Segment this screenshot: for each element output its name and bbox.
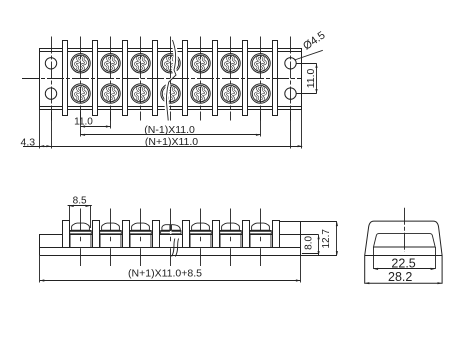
screw S3 head (front view) (130, 223, 152, 247)
break line (top view) (167, 40, 176, 121)
mounting hole (top view) (285, 88, 296, 99)
screw S3 top-row (top view) (131, 54, 150, 73)
vertical centerline col x=260.5 (top view) (260, 37, 262, 121)
svg-text:22.5: 22.5 (391, 256, 415, 270)
svg-text:11.0: 11.0 (305, 68, 317, 88)
centerline screw S1 (front view) (80, 209, 82, 267)
barrier B1 (front view) (63, 221, 70, 248)
screw S2 bottom-row (top view) (101, 84, 120, 103)
vertical centerline col x=140.5 (top view) (140, 37, 142, 121)
screw S1 top-row (top view) (71, 54, 90, 73)
vertical centerline col x=170.5 (top view) (170, 37, 172, 121)
extension line below col x=110.5 (110, 109, 112, 128)
screw S7 top-row (top view) (251, 54, 270, 73)
barrier B2 (front view) (93, 221, 100, 248)
screw S6 head (front view) (220, 223, 242, 247)
top view: body outline (40, 49, 302, 110)
centerline screw S7 (front view) (260, 209, 262, 267)
screw S7 bottom-row (top view) (251, 84, 270, 103)
screw S1 bottom-row (top view) (71, 84, 90, 103)
svg-text:4.3: 4.3 (20, 136, 35, 148)
screw S5 bottom-row (top view) (191, 84, 210, 103)
dimensions 8.0 and 12.7 (front view) (301, 222, 339, 256)
front view: base slab (40, 222, 301, 256)
screw S4 top-row (top view) (161, 54, 180, 73)
barrier B6 (top view) (213, 41, 218, 116)
broken screw S4 halves and break marks (front view) (161, 225, 181, 257)
screw S7 head (front view) (250, 223, 272, 247)
vertical centerline col x=230.5 (top view) (230, 37, 232, 121)
mounting hole (top view) (45, 58, 56, 69)
barrier B3 (front view) (123, 221, 130, 248)
barrier B2 (top view) (93, 41, 98, 116)
barrier B4 (front view) (153, 221, 160, 248)
screw S2 head (front view) (100, 223, 122, 247)
svg-text:(N+1)X11.0: (N+1)X11.0 (145, 136, 198, 148)
extension line below col x=260.5 (260, 109, 262, 136)
svg-text:8.5: 8.5 (73, 195, 87, 206)
barrier B1 (top view) (63, 41, 68, 116)
side view: outer profile (365, 221, 442, 283)
centerline screw S3 (front view) (140, 209, 142, 267)
barrier B8 (front view) (273, 221, 280, 248)
dimension 11.0 vertical hole spacing (top view) (296, 63, 317, 93)
side view: inner profile (374, 234, 436, 247)
svg-text:12.7: 12.7 (321, 229, 332, 249)
svg-text:Ø4.5: Ø4.5 (301, 29, 327, 52)
centerline screw S2 (front view) (110, 209, 112, 267)
vertical centerline col x=110.5 (top view) (110, 37, 112, 121)
extension line right edge (top view) (301, 109, 303, 148)
mounting hole (top view) (45, 88, 56, 99)
barrier B8 (top view) (273, 41, 278, 116)
screw S5 top-row (top view) (191, 54, 210, 73)
barrier B7 (top view) (243, 41, 248, 116)
dimension 4.3 and (N+1)X11.0 (top view) (20, 136, 302, 149)
barrier B6 (front view) (213, 221, 220, 248)
side view: centerline (404, 208, 406, 252)
barrier B4 (top view) (153, 41, 158, 116)
extension line below col x=80.5 (80, 109, 82, 136)
screw S3 bottom-row (top view) (131, 84, 150, 103)
vertical centerline col x=80.5 (top view) (80, 37, 82, 121)
svg-text:11.0: 11.0 (74, 117, 93, 128)
screw S5 head (front view) (190, 223, 212, 247)
vertical centerline col x=290.5 (top view) (290, 37, 292, 121)
dimension 22.5 (side view) (374, 247, 436, 270)
barrier B7 (front view) (243, 221, 250, 248)
screw S4 bottom-row (top view) (161, 84, 180, 103)
dimension 28.2 (side view) (365, 270, 442, 284)
mounting hole (top view) (285, 58, 296, 69)
dimension (N-1)X11.0 (top view) (81, 124, 261, 136)
screw S2 top-row (top view) (101, 54, 120, 73)
svg-text:8.0: 8.0 (303, 236, 314, 250)
extension line left edge (top view) (39, 109, 41, 148)
front view: right end cap (279, 222, 300, 235)
screw S1 head (front view) (70, 223, 92, 247)
dimension 8.5 (front view) (68, 195, 92, 228)
leader and label diameter 4.5 (top view) (295, 29, 328, 60)
screw S6 bottom-row (top view) (221, 84, 240, 103)
screw S6 top-row (top view) (221, 54, 240, 73)
centerline screw S6 (front view) (230, 209, 232, 267)
horizontal centerline (top view) (22, 78, 301, 80)
centerline screw S4 (front view) (170, 209, 172, 267)
dimension (N+1)X11.0+8.5 (front view) (40, 256, 301, 283)
barrier B5 (top view) (183, 41, 188, 116)
svg-text:(N-1)X11.0: (N-1)X11.0 (144, 124, 195, 136)
extension line below col x=290.5 (290, 109, 292, 148)
barrier B3 (top view) (123, 41, 128, 116)
svg-text:(N+1)X11.0+8.5: (N+1)X11.0+8.5 (128, 268, 202, 280)
vertical centerline col x=51.0 (top view) (51, 37, 53, 121)
centerline screw S5 (front view) (200, 209, 202, 267)
svg-text:28.2: 28.2 (388, 270, 412, 284)
dimension 11.0 pitch (top view) (74, 117, 110, 128)
vertical centerline col x=200.5 (top view) (200, 37, 202, 121)
barrier B5 (front view) (183, 221, 190, 248)
extension line below col x=51.0 (51, 109, 53, 148)
